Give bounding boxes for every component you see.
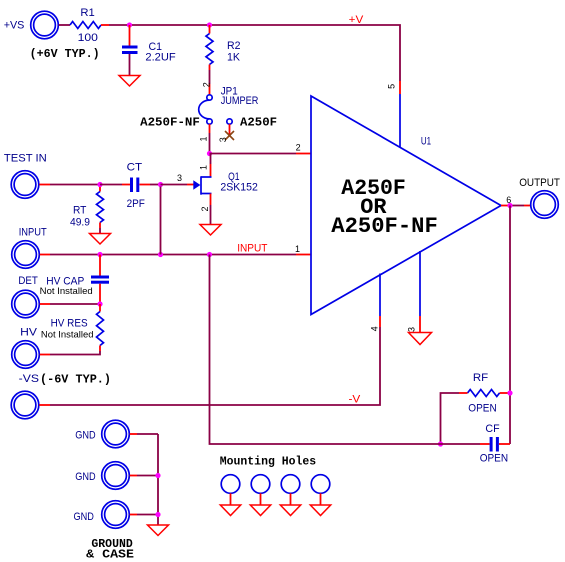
svg-text:2.2UF: 2.2UF (145, 52, 176, 64)
resistor R2 (206, 34, 241, 65)
svg-text:JUMPER: JUMPER (221, 95, 259, 107)
ground under RT (90, 234, 111, 245)
svg-text:OPEN: OPEN (480, 453, 508, 465)
ground under GND bus (148, 525, 169, 536)
svg-text:R1: R1 (80, 7, 94, 19)
svg-text:CF: CF (485, 423, 499, 435)
wire INPUT line (50, 254, 296, 256)
capacitor HV CAP (40, 276, 109, 298)
terminal OUTPUT (519, 177, 560, 218)
terminal HV (12, 327, 40, 369)
wire CT branch vertical (160, 187, 162, 255)
label GROUND & CASE (86, 538, 134, 562)
svg-text:3: 3 (177, 173, 182, 183)
svg-text:49.9: 49.9 (70, 217, 90, 229)
wire CF left red lead (480, 443, 490, 445)
node junction INPUT/HVCAP (97, 252, 102, 257)
terminal INPUT (12, 227, 47, 269)
wire DET red stub (40, 303, 50, 305)
node junction DET/HVRES (97, 301, 102, 306)
wire RF left to corner (441, 393, 460, 444)
wire Q1 drain red stub (210, 164, 212, 177)
mounting hole 2 (251, 475, 270, 505)
svg-text:U1: U1 (421, 136, 431, 148)
svg-text:R2: R2 (227, 40, 241, 52)
svg-text:INPUT: INPUT (19, 227, 47, 239)
svg-text:GND: GND (74, 511, 94, 523)
svg-text:Not Installed: Not Installed (41, 330, 94, 341)
wire TEST IN red stub (39, 184, 50, 186)
terminal +VS (4, 11, 59, 39)
mounting hole 4 (311, 475, 330, 505)
wire R2 to JP1 (209, 70, 211, 84)
no-connect X mark (225, 131, 234, 140)
svg-text:2SK152: 2SK152 (220, 182, 258, 194)
svg-text:A250F: A250F (240, 117, 277, 130)
wire C1 top stub (129, 25, 131, 46)
svg-text:1: 1 (198, 136, 208, 141)
wire feedback bottom line (210, 255, 481, 445)
svg-text:A250F-NF: A250F-NF (140, 117, 200, 130)
wire CT right red lead (140, 184, 151, 186)
svg-text:DET: DET (18, 275, 38, 287)
node junction GND2 (155, 473, 160, 478)
wire R2 top stub (209, 25, 211, 34)
wire node to opamp pin2 (210, 153, 297, 155)
ground under pin3 (409, 333, 432, 345)
wire CF right red lead (499, 443, 510, 445)
svg-text:(+6V TYP.): (+6V TYP.) (30, 48, 100, 61)
svg-text:Not Installed: Not Installed (40, 286, 93, 297)
mounting hole 3 (281, 475, 300, 505)
terminal GND 1 (75, 420, 129, 448)
terminal DET (12, 275, 40, 318)
wire CT to junction (150, 184, 161, 186)
wire GND bus vertical (157, 434, 159, 525)
svg-text:A250F-NF: A250F-NF (331, 214, 438, 239)
ground under Q1 (200, 225, 221, 236)
wire opamp pin2 red stub (296, 153, 311, 155)
svg-text:RF: RF (473, 372, 489, 384)
svg-text:5: 5 (387, 84, 397, 89)
wire opamp pin4 red stub (379, 316, 381, 327)
svg-text:4: 4 (370, 326, 380, 331)
svg-text:GND: GND (75, 430, 95, 442)
wire Q1 gate red stub (187, 184, 194, 186)
wire R1 lead red (101, 24, 109, 26)
wire OUTPUT red stub (524, 205, 530, 207)
svg-text:Mounting Holes: Mounting Holes (220, 456, 316, 469)
wire GND1 red stub (130, 433, 137, 435)
wire pin5 red stub (399, 81, 401, 94)
node junction output (507, 203, 512, 208)
op-amp U1 (311, 94, 501, 316)
ground under hole 3 (280, 505, 300, 516)
wire output apex stub (501, 205, 510, 207)
svg-text:CT: CT (127, 162, 143, 174)
wire C1 bottom stub (129, 54, 131, 76)
wire A250F option stub (229, 124, 231, 135)
ground under hole 2 (250, 505, 270, 516)
svg-text:GND: GND (75, 471, 95, 483)
svg-text:INPUT: INPUT (237, 243, 267, 255)
resistor R1 (70, 7, 101, 44)
wire CT left red lead (122, 184, 130, 186)
svg-text:2PF: 2PF (127, 198, 146, 210)
wire TEST IN to junction (50, 184, 100, 186)
node junction CT/gate (158, 182, 163, 187)
wire GND1 to bus (137, 433, 158, 435)
svg-text:3: 3 (407, 327, 417, 332)
svg-text:2: 2 (202, 82, 212, 87)
wire +V rail (109, 25, 400, 81)
node junction rail/R2 (207, 22, 212, 27)
svg-text:+V: +V (349, 14, 364, 26)
wire JP1 pin2 stub (209, 84, 211, 95)
svg-text:HV RES: HV RES (51, 318, 88, 330)
svg-text:-V: -V (349, 394, 362, 406)
wire junction to CT (100, 184, 122, 186)
wire opamp pin3 red stub (419, 316, 421, 333)
wire GND2 to bus (137, 475, 158, 477)
svg-text:-VS: -VS (19, 373, 39, 385)
wire Q1 source to ground (210, 205, 212, 225)
wire HV red stub (40, 354, 50, 356)
label A250F OR A250F-NF (331, 176, 438, 239)
svg-text:(-6V TYP.): (-6V TYP.) (40, 374, 111, 387)
svg-text:1K: 1K (227, 52, 241, 64)
svg-text:RT: RT (73, 205, 87, 217)
terminal GND 3 (74, 501, 130, 529)
node junction RF/CF bottom (438, 441, 443, 446)
wire opamp pin1 red stub (296, 254, 311, 256)
ground under C1 (119, 76, 140, 87)
wire junction to Q1 gate (161, 184, 188, 186)
terminal GND 2 (75, 462, 129, 490)
svg-text:3: 3 (218, 137, 228, 142)
svg-text:HV: HV (20, 327, 38, 339)
svg-text:2: 2 (200, 206, 210, 211)
resistor RT (70, 187, 104, 229)
wire feedback vertical from output (509, 206, 511, 445)
node junction INPUT/feedback (207, 252, 212, 257)
svg-text:+VS: +VS (4, 20, 25, 32)
wire JP1 to node (209, 133, 211, 154)
wire JP1 pin1 stub (209, 124, 211, 133)
node junction TESTIN/RT/CT (97, 182, 102, 187)
wire R2 bottom lead (209, 65, 211, 71)
wire GND3 to bus (137, 514, 158, 516)
svg-text:100: 100 (78, 32, 98, 44)
wire DET to junction (50, 303, 100, 305)
node junction GND3 (155, 512, 160, 517)
wire -VS red stub (39, 404, 50, 406)
svg-text:1: 1 (295, 244, 300, 254)
mounting hole 1 (221, 475, 240, 505)
transistor Q1 (193, 171, 258, 195)
node junction rail/C1 (127, 22, 132, 27)
capacitor CF (480, 423, 508, 465)
resistor HV RES (41, 304, 104, 351)
wire -V rail (50, 327, 380, 405)
wire HVRES to HV wire (50, 351, 100, 355)
wire RF left red lead (459, 392, 468, 394)
wire GND3 red stub (130, 514, 137, 516)
svg-text:2: 2 (296, 143, 301, 153)
ground under hole 1 (220, 505, 240, 516)
capacitor CT (127, 162, 146, 211)
ground under hole 4 (310, 505, 330, 516)
wire RF right red lead (500, 392, 508, 394)
terminal TEST IN (4, 153, 47, 199)
svg-text:1: 1 (198, 165, 208, 170)
resistor RF (468, 372, 500, 415)
wire INPUT red stub (40, 254, 50, 256)
wire output to terminal (513, 205, 525, 207)
wire HV CAP bottom stub (99, 284, 101, 304)
svg-text:OUTPUT: OUTPUT (519, 177, 560, 189)
capacitor C1 (122, 41, 176, 64)
wire HV CAP top stub (99, 255, 101, 276)
wire node down to Q1 drain (210, 154, 212, 165)
node junction INPUT/CT branch (158, 252, 163, 257)
wire GND2 red stub (130, 475, 137, 477)
node junction RF right (507, 390, 512, 395)
wire Q1 source red stub (210, 194, 212, 206)
node gate junction (207, 151, 212, 156)
wire +VS to R1 (59, 24, 70, 26)
option pad A250F (227, 117, 277, 130)
jumper JP1 (199, 86, 259, 125)
svg-text:OPEN: OPEN (468, 403, 496, 415)
wire RT to ground (99, 228, 101, 234)
svg-text:TEST IN: TEST IN (4, 153, 47, 165)
svg-text:& CASE: & CASE (86, 549, 134, 562)
terminal -VS (11, 373, 39, 419)
